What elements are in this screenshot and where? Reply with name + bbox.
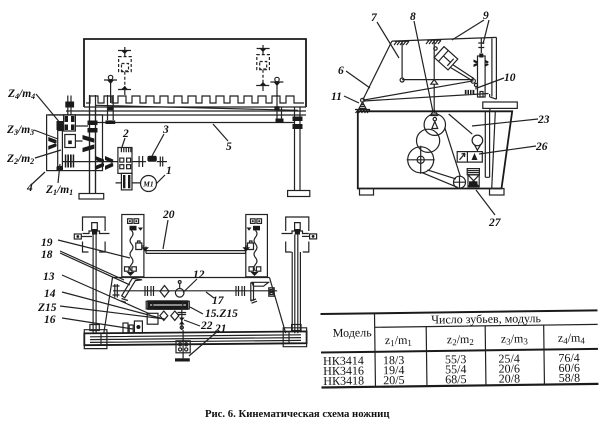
leader 13 bbox=[62, 275, 150, 314]
swing frame left slant bbox=[363, 41, 392, 99]
foot right bbox=[288, 191, 310, 197]
motor M1 bbox=[141, 176, 157, 192]
gear z2 striped bbox=[65, 155, 74, 168]
leader 10 bbox=[477, 78, 504, 88]
column line model bbox=[373, 313, 376, 386]
leg left bbox=[90, 107, 96, 193]
knife guide strip bbox=[485, 111, 489, 177]
gear block 21 bbox=[176, 341, 190, 353]
clutch box with dot bbox=[65, 135, 76, 148]
beam bottom line bbox=[84, 106, 306, 108]
cam lower left bbox=[160, 311, 168, 320]
piston rod bbox=[451, 65, 474, 81]
svg-text:22: 22 bbox=[200, 320, 213, 332]
gear cluster hanger bbox=[68, 96, 71, 115]
blade edge bbox=[96, 105, 298, 110]
svg-text:Модель: Модель bbox=[333, 325, 373, 340]
leader 9b bbox=[483, 20, 489, 44]
svg-text:13: 13 bbox=[43, 271, 55, 283]
eccentric block 15 bbox=[146, 300, 189, 310]
clutch link line bbox=[75, 126, 88, 141]
svg-text:Z3/m3: Z3/m3 bbox=[6, 124, 34, 137]
table box 5 outline bbox=[84, 39, 306, 107]
leader 26 bbox=[479, 146, 536, 154]
cam left bbox=[160, 286, 169, 298]
adjuster screw on bar bbox=[478, 39, 484, 54]
leader 18a bbox=[60, 251, 124, 280]
svg-text:20: 20 bbox=[162, 209, 175, 221]
leader Z1 bbox=[58, 164, 60, 183]
screw symbol T left bbox=[104, 75, 117, 103]
svg-text:6: 6 bbox=[338, 65, 344, 77]
leg right bbox=[295, 107, 301, 190]
short hanger bbox=[277, 107, 282, 121]
screw column right bbox=[292, 235, 300, 334]
lower rail bbox=[48, 114, 306, 116]
leader Z2 bbox=[35, 150, 61, 158]
svg-text:Число зубьев, модуль: Число зубьев, модуль bbox=[431, 311, 541, 326]
knife beam castellated edge bbox=[86, 96, 304, 103]
motor shaft bbox=[132, 161, 146, 163]
svg-text:19: 19 bbox=[41, 237, 53, 249]
leader 17 bbox=[206, 292, 214, 298]
svg-text:1: 1 bbox=[166, 165, 172, 177]
oil pump parts bbox=[123, 321, 142, 333]
svg-text:8: 8 bbox=[410, 11, 416, 23]
rocker pivot 11 bbox=[361, 98, 365, 102]
pivot hatch P2 bbox=[426, 40, 441, 44]
svg-text:3: 3 bbox=[162, 124, 169, 136]
tank foot left bbox=[360, 189, 374, 196]
table top rule bbox=[321, 310, 598, 314]
header separator rule bbox=[321, 349, 598, 353]
knife cylinder block bbox=[434, 47, 458, 70]
coupling right bbox=[236, 286, 245, 296]
leader 8 bbox=[414, 21, 433, 112]
gear z1 top hatched bbox=[57, 121, 64, 130]
pendulum P2 bbox=[433, 40, 435, 79]
leader 3 bbox=[152, 134, 164, 156]
screw column left bbox=[93, 235, 96, 334]
crank pin 12 bbox=[175, 289, 184, 298]
svg-text:20/5: 20/5 bbox=[383, 373, 405, 387]
column bevel gears bbox=[83, 135, 95, 152]
guide bar 10 bbox=[465, 90, 475, 94]
screw symbol T right bbox=[270, 77, 283, 107]
svg-text:23: 23 bbox=[537, 114, 550, 126]
leader Z15 bbox=[60, 306, 165, 319]
horizontal shaft bbox=[62, 161, 118, 163]
leader 22 bbox=[184, 320, 200, 326]
hanger bell bbox=[108, 95, 114, 120]
svg-text:Z1/m1: Z1/m1 bbox=[45, 184, 73, 197]
tank inner wall bbox=[492, 112, 496, 189]
link bar bbox=[402, 79, 473, 81]
stand bbox=[182, 353, 184, 359]
tank foot right bbox=[490, 189, 505, 196]
eccentric shaft 17 bbox=[113, 290, 277, 292]
svg-text:17: 17 bbox=[212, 295, 225, 307]
bell gear blob bbox=[106, 120, 116, 124]
column line 3 bbox=[543, 325, 546, 384]
adjuster blob bbox=[479, 54, 483, 58]
leader 9a bbox=[452, 20, 484, 40]
knife bar strip bbox=[478, 56, 486, 97]
svg-text:58/8: 58/8 bbox=[559, 371, 581, 385]
leader 11 bbox=[344, 96, 359, 103]
leader 21 bbox=[189, 330, 219, 356]
belt box bbox=[121, 173, 132, 190]
lever 6 bbox=[363, 81, 474, 100]
svg-text:11: 11 bbox=[331, 91, 342, 103]
leader 14 bbox=[62, 292, 160, 318]
middle column bbox=[90, 95, 96, 193]
shaft z1 vertical bbox=[58, 131, 63, 167]
coupling left bbox=[145, 286, 154, 296]
leader 1 bbox=[156, 175, 165, 184]
svg-text:26: 26 bbox=[535, 141, 548, 153]
leader 6 bbox=[346, 71, 370, 88]
svg-text:Z15: Z15 bbox=[37, 302, 57, 314]
svg-text:18: 18 bbox=[41, 249, 53, 261]
column line 1 bbox=[425, 327, 428, 386]
bearing on right leg bbox=[293, 117, 303, 130]
leader 23 bbox=[472, 119, 538, 126]
leader Z3 bbox=[34, 130, 58, 139]
z1 bottom bearing bbox=[57, 167, 64, 171]
pivot ground hatch bbox=[355, 110, 370, 114]
pump box bbox=[147, 313, 158, 324]
leader 16 bbox=[62, 318, 133, 329]
bottom slant of frame bbox=[364, 94, 489, 102]
leader 19 bbox=[58, 240, 130, 258]
upper rail bbox=[66, 110, 306, 112]
screw nut left bbox=[90, 325, 99, 331]
right bar outer bbox=[490, 37, 497, 99]
end coupling bbox=[269, 288, 274, 296]
column housing outer-left bbox=[74, 217, 109, 252]
variator box 2 bbox=[118, 148, 132, 174]
body right slant bbox=[270, 278, 286, 334]
bed bbox=[84, 328, 306, 349]
leader 15 bbox=[190, 307, 203, 314]
svg-text:68/5: 68/5 bbox=[445, 372, 467, 386]
valve box 26 bbox=[457, 152, 482, 163]
svg-text:10: 10 bbox=[504, 72, 516, 84]
pivot hatch P1 bbox=[394, 41, 409, 45]
gearbox housing 4 bbox=[47, 115, 103, 171]
motor line bbox=[116, 182, 142, 184]
sub header line bbox=[375, 324, 598, 327]
leader 4 bbox=[31, 172, 45, 185]
leader 12 bbox=[183, 279, 197, 293]
crank pin joint bbox=[471, 79, 475, 83]
bearing on middle column bbox=[88, 121, 98, 133]
body left slant bbox=[104, 278, 113, 334]
leader 2 bbox=[122, 138, 125, 147]
leader Z4 bbox=[36, 94, 61, 124]
governor bbox=[178, 306, 187, 341]
svg-text:Z4/m4: Z4/m4 bbox=[7, 88, 35, 101]
belt bbox=[422, 127, 461, 187]
motor pulley bbox=[454, 176, 466, 188]
body top line bbox=[113, 277, 270, 279]
coupling bbox=[139, 156, 143, 167]
gear cluster z4/z3 bbox=[64, 115, 76, 131]
screw nut right bbox=[292, 325, 301, 331]
svg-text:20/8: 20/8 bbox=[499, 371, 521, 385]
swing frame top edge bbox=[392, 37, 497, 41]
bottom rule bbox=[321, 384, 598, 388]
svg-text:Рис. 6. Кинематическая схема н: Рис. 6. Кинематическая схема ножниц bbox=[205, 408, 390, 420]
tension arm bbox=[449, 114, 473, 134]
brake 3 bbox=[147, 156, 156, 162]
crank disc bbox=[424, 114, 445, 135]
connecting link 8 bbox=[433, 84, 435, 113]
svg-text:15.Z15: 15.Z15 bbox=[205, 308, 238, 320]
leader 27 bbox=[476, 190, 495, 215]
tension pulley 23 bbox=[472, 135, 483, 146]
right bearing bracket bbox=[251, 282, 269, 303]
tank box bbox=[358, 111, 512, 188]
gear wheel bbox=[417, 129, 440, 152]
svg-text:12: 12 bbox=[193, 269, 205, 281]
bevel pairs at input bbox=[95, 156, 113, 170]
foot left bbox=[79, 194, 104, 200]
svg-text:5: 5 bbox=[226, 141, 232, 153]
column housing outer-right bbox=[282, 217, 317, 252]
table plate bbox=[483, 102, 518, 108]
hold-down dashed symbol right bbox=[256, 45, 269, 91]
leader 5 bbox=[213, 124, 228, 141]
left bearing bracket bbox=[113, 278, 143, 302]
hold-down dashed symbol left bbox=[118, 47, 131, 95]
svg-text:14: 14 bbox=[44, 288, 56, 300]
traverse beam bbox=[146, 247, 246, 254]
pendulum P1 bbox=[401, 41, 403, 78]
bar rail 5 bbox=[88, 122, 294, 124]
pulley wheel bbox=[408, 147, 434, 173]
leader 20 bbox=[163, 220, 168, 249]
svg-text:27: 27 bbox=[488, 217, 502, 229]
bar gear teeth right bbox=[485, 60, 489, 68]
bearing blob bbox=[276, 119, 284, 124]
coupling 2 bbox=[160, 157, 162, 167]
spring panel left bbox=[122, 215, 144, 277]
pump assembly 27 bbox=[467, 169, 479, 187]
svg-text:16: 16 bbox=[44, 314, 56, 326]
leader 7 bbox=[377, 22, 399, 58]
svg-text:Z2/m2: Z2/m2 bbox=[6, 153, 34, 166]
bar gear teeth left bbox=[474, 60, 479, 68]
stem blobs bbox=[108, 106, 113, 110]
bevel pair left bbox=[48, 137, 56, 150]
cam lower right bbox=[171, 311, 179, 320]
svg-text:М1: М1 bbox=[142, 179, 153, 188]
column line 2 bbox=[484, 326, 487, 385]
spring panel right bbox=[245, 215, 267, 277]
svg-text:НК3418: НК3418 bbox=[323, 373, 364, 388]
leader 18b bbox=[60, 253, 130, 285]
